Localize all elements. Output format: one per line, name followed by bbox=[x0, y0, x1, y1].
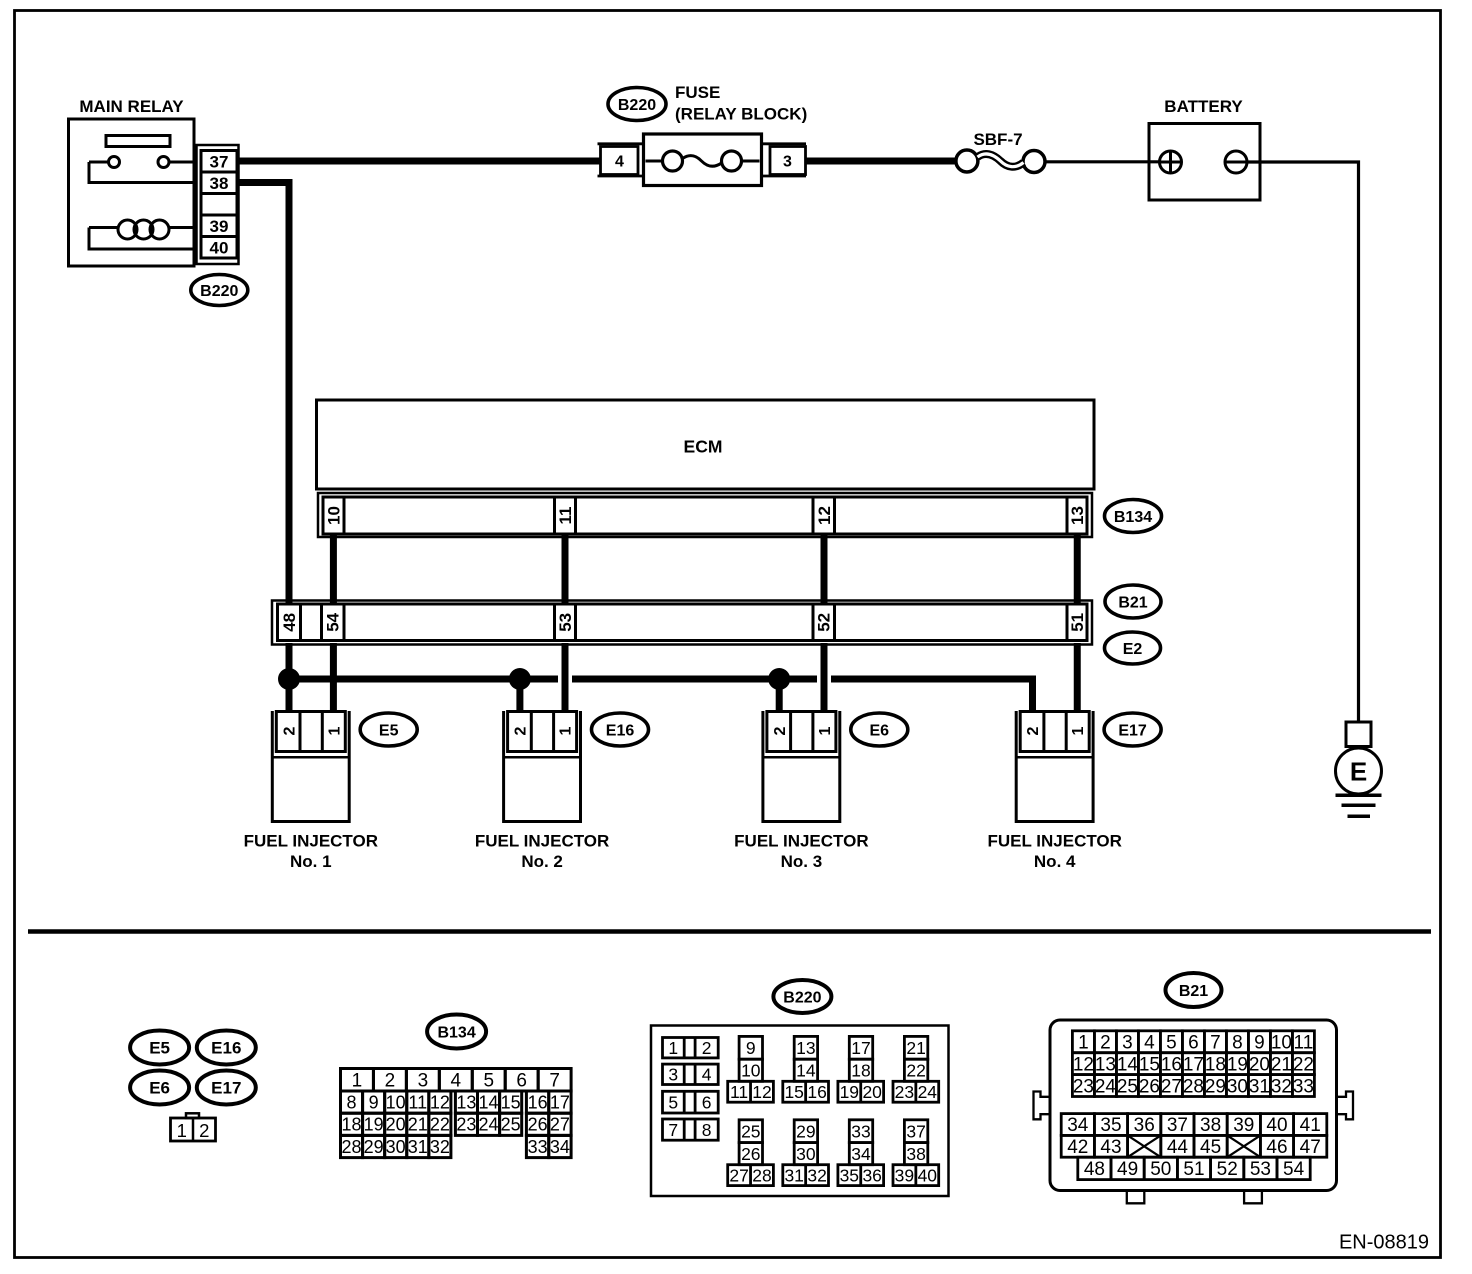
svg-text:46: 46 bbox=[1266, 1137, 1287, 1158]
svg-text:FUEL INJECTOR: FUEL INJECTOR bbox=[475, 832, 609, 851]
svg-text:6: 6 bbox=[516, 1070, 527, 1091]
wire: pin 51 to injector No.4 pin 1 bbox=[1074, 643, 1081, 712]
svg-text:14: 14 bbox=[479, 1092, 499, 1112]
svg-text:4: 4 bbox=[1144, 1032, 1155, 1053]
ground E bbox=[1336, 722, 1382, 816]
svg-text:36: 36 bbox=[1134, 1115, 1155, 1136]
svg-text:12: 12 bbox=[752, 1082, 771, 1102]
svg-text:25: 25 bbox=[1117, 1076, 1138, 1097]
svg-text:8: 8 bbox=[702, 1120, 712, 1140]
svg-text:23: 23 bbox=[895, 1082, 914, 1102]
wire: main relay pin 37 to fuse terminal 4 bbox=[239, 158, 602, 165]
svg-text:15: 15 bbox=[501, 1092, 521, 1112]
wire: pin 48 down to junction and injector No.1 pin 2 bbox=[286, 643, 293, 712]
svg-text:33: 33 bbox=[528, 1137, 548, 1157]
svg-text:39: 39 bbox=[895, 1165, 914, 1185]
svg-text:22: 22 bbox=[906, 1060, 925, 1080]
svg-text:10: 10 bbox=[386, 1092, 406, 1112]
svg-text:24: 24 bbox=[479, 1115, 499, 1135]
svg-text:2: 2 bbox=[199, 1120, 209, 1141]
connector label E17 bbox=[1104, 713, 1161, 746]
wire: pin 53 to injector No.2 pin 1 bbox=[562, 643, 569, 712]
svg-text:4: 4 bbox=[702, 1065, 712, 1085]
svg-text:E17: E17 bbox=[211, 1079, 241, 1098]
svg-text:38: 38 bbox=[1200, 1115, 1221, 1136]
svg-text:27: 27 bbox=[550, 1115, 570, 1135]
svg-text:38: 38 bbox=[210, 174, 229, 193]
wire: ECM pin 10 to pin 54 bbox=[330, 533, 337, 603]
fuel injector No. 4 bbox=[987, 711, 1121, 871]
svg-text:26: 26 bbox=[1139, 1076, 1160, 1097]
connector pinout 1 2 (injector connector) bbox=[171, 1113, 216, 1141]
connector pins 37 38 39 40 (main relay, B220) bbox=[197, 145, 239, 264]
svg-text:16: 16 bbox=[807, 1082, 826, 1102]
svg-text:B134: B134 bbox=[437, 1024, 475, 1041]
svg-text:40: 40 bbox=[210, 238, 229, 257]
bus wire segment: junction A to crossover at pin 53 wire bbox=[289, 676, 558, 683]
svg-text:41: 41 bbox=[1300, 1115, 1321, 1136]
svg-text:25: 25 bbox=[741, 1121, 760, 1141]
svg-text:23: 23 bbox=[456, 1115, 476, 1135]
connector label B134 (pinout) bbox=[427, 1015, 486, 1049]
svg-text:5: 5 bbox=[1166, 1032, 1177, 1053]
wire: SBF-7 to battery positive bbox=[1045, 160, 1160, 163]
svg-text:27: 27 bbox=[1161, 1076, 1182, 1097]
svg-text:1: 1 bbox=[177, 1120, 187, 1141]
fuel injector No. 3 bbox=[734, 711, 868, 871]
svg-text:B21: B21 bbox=[1179, 983, 1208, 1000]
fuse FUSE (RELAY BLOCK) label bbox=[675, 83, 807, 124]
wire: junction C to injector No.3 pin 2 bbox=[776, 679, 783, 712]
svg-text:1: 1 bbox=[558, 726, 575, 735]
svg-text:13: 13 bbox=[456, 1092, 476, 1112]
connector B21 pinout grid pins 1-54 bbox=[1061, 1031, 1327, 1180]
svg-text:20: 20 bbox=[862, 1082, 882, 1102]
svg-text:2: 2 bbox=[1100, 1032, 1111, 1053]
svg-text:E6: E6 bbox=[870, 722, 890, 739]
svg-text:22: 22 bbox=[1293, 1054, 1314, 1075]
wire: battery negative down to ground E bbox=[1247, 162, 1359, 722]
svg-text:29: 29 bbox=[1205, 1076, 1226, 1097]
bus wire segment: crossover to crossover at pin 52 wire bbox=[572, 676, 817, 683]
svg-text:24: 24 bbox=[1095, 1076, 1117, 1097]
svg-text:22: 22 bbox=[430, 1115, 450, 1135]
relay coil bbox=[89, 220, 194, 249]
connector label B220 (main relay) bbox=[191, 275, 248, 306]
svg-text:14: 14 bbox=[1117, 1054, 1139, 1075]
svg-text:FUSE: FUSE bbox=[675, 83, 720, 102]
svg-text:32: 32 bbox=[807, 1165, 826, 1185]
svg-text:54: 54 bbox=[1283, 1159, 1305, 1180]
svg-text:27: 27 bbox=[729, 1165, 748, 1185]
connector B220 pinout grid pins 1-40 bbox=[651, 1026, 949, 1197]
svg-text:1: 1 bbox=[1078, 1032, 1089, 1053]
wire: ECM pin 13 to pin 51 bbox=[1074, 533, 1081, 603]
svg-text:25: 25 bbox=[501, 1115, 521, 1135]
connector label E2 bbox=[1105, 632, 1161, 664]
svg-text:21: 21 bbox=[906, 1038, 925, 1058]
wire: fuse terminal 3 to fusible link SBF-7 bbox=[806, 158, 957, 165]
svg-text:E5: E5 bbox=[149, 1039, 170, 1058]
svg-text:1: 1 bbox=[817, 726, 834, 735]
svg-text:E: E bbox=[1350, 756, 1367, 786]
svg-text:8: 8 bbox=[1232, 1032, 1243, 1053]
wire: pin 52 to injector No.3 pin 1 bbox=[821, 643, 828, 712]
svg-text:6: 6 bbox=[702, 1092, 712, 1112]
svg-text:9: 9 bbox=[369, 1092, 379, 1112]
svg-text:54: 54 bbox=[324, 612, 343, 631]
svg-text:35: 35 bbox=[840, 1165, 859, 1185]
connector label B134 bbox=[1105, 500, 1162, 533]
figure number EN-08819 bbox=[1339, 1232, 1429, 1254]
fuse element with terminals 4 and 3 bbox=[598, 134, 807, 186]
svg-text:B220: B220 bbox=[783, 989, 821, 1006]
svg-text:18: 18 bbox=[1205, 1054, 1226, 1075]
svg-text:2: 2 bbox=[513, 726, 530, 735]
connector label B21 (pinout) bbox=[1166, 973, 1222, 1007]
connector B21 pinout housing bbox=[1034, 1020, 1354, 1203]
svg-text:No. 3: No. 3 bbox=[781, 852, 823, 871]
svg-text:1: 1 bbox=[1070, 726, 1087, 735]
junction node A bbox=[278, 668, 300, 690]
svg-text:34: 34 bbox=[550, 1137, 570, 1157]
svg-text:18: 18 bbox=[342, 1115, 362, 1135]
svg-text:51: 51 bbox=[1183, 1159, 1204, 1180]
svg-text:B220: B220 bbox=[200, 283, 238, 300]
connector label E16 bbox=[592, 713, 649, 746]
wire: main relay pin 38 down to connector pin 48 bbox=[239, 183, 290, 606]
svg-text:20: 20 bbox=[386, 1115, 406, 1135]
svg-text:29: 29 bbox=[796, 1121, 815, 1141]
svg-text:ECM: ECM bbox=[684, 437, 723, 457]
svg-text:FUEL INJECTOR: FUEL INJECTOR bbox=[734, 832, 868, 851]
svg-text:B134: B134 bbox=[1114, 509, 1152, 526]
svg-text:43: 43 bbox=[1100, 1137, 1121, 1158]
svg-text:36: 36 bbox=[862, 1165, 881, 1185]
svg-text:44: 44 bbox=[1167, 1137, 1189, 1158]
fuel injector No. 1 bbox=[244, 711, 378, 871]
svg-text:9: 9 bbox=[1254, 1032, 1265, 1053]
wire: ECM pin 11 to pin 53 bbox=[562, 533, 569, 603]
svg-text:53: 53 bbox=[556, 613, 575, 632]
connector E5 pins 2 1 (fuel injector No. 1) bbox=[276, 712, 345, 752]
svg-text:29: 29 bbox=[364, 1137, 384, 1157]
svg-text:1: 1 bbox=[326, 726, 343, 735]
connector label E5 (pinout) bbox=[130, 1031, 189, 1065]
svg-text:30: 30 bbox=[1227, 1076, 1248, 1097]
svg-text:31: 31 bbox=[408, 1137, 428, 1157]
svg-text:32: 32 bbox=[430, 1137, 450, 1157]
svg-text:19: 19 bbox=[1227, 1054, 1248, 1075]
connector B134 pinout grid pins 1-34 bbox=[341, 1069, 572, 1158]
connector B134 strip pins 10 11 12 13 bbox=[318, 493, 1092, 537]
svg-text:39: 39 bbox=[1233, 1115, 1254, 1136]
svg-text:49: 49 bbox=[1117, 1159, 1138, 1180]
svg-text:2: 2 bbox=[772, 726, 789, 735]
svg-text:EN-08819: EN-08819 bbox=[1339, 1232, 1429, 1254]
svg-text:2: 2 bbox=[1025, 726, 1042, 735]
connector label E16 (pinout) bbox=[197, 1031, 256, 1065]
svg-text:BATTERY: BATTERY bbox=[1164, 97, 1243, 116]
svg-text:7: 7 bbox=[1210, 1032, 1221, 1053]
svg-text:23: 23 bbox=[1073, 1076, 1094, 1097]
connector label E5 bbox=[360, 713, 417, 746]
relay MAIN RELAY bbox=[69, 97, 195, 266]
svg-text:14: 14 bbox=[796, 1060, 816, 1080]
connector E16 pins 2 1 (fuel injector No. 2) bbox=[508, 712, 577, 752]
ECM bbox=[317, 400, 1095, 489]
svg-text:20: 20 bbox=[1249, 1054, 1270, 1075]
svg-text:15: 15 bbox=[1139, 1054, 1160, 1075]
svg-text:1: 1 bbox=[352, 1070, 363, 1091]
svg-text:52: 52 bbox=[1217, 1159, 1238, 1180]
svg-text:28: 28 bbox=[752, 1165, 771, 1185]
connector E6 pins 2 1 (fuel injector No. 3) bbox=[767, 712, 836, 752]
svg-text:51: 51 bbox=[1068, 613, 1087, 632]
svg-text:12: 12 bbox=[430, 1092, 450, 1112]
svg-text:11: 11 bbox=[556, 507, 575, 525]
svg-text:MAIN RELAY: MAIN RELAY bbox=[79, 97, 184, 116]
connector label B21 bbox=[1105, 585, 1161, 618]
svg-text:30: 30 bbox=[386, 1137, 406, 1157]
wire: ECM pin 12 to pin 52 bbox=[821, 533, 828, 603]
svg-text:39: 39 bbox=[210, 217, 229, 236]
svg-text:15: 15 bbox=[784, 1082, 803, 1102]
svg-text:21: 21 bbox=[408, 1115, 428, 1135]
svg-text:26: 26 bbox=[741, 1144, 760, 1164]
svg-text:5: 5 bbox=[483, 1070, 494, 1091]
svg-text:31: 31 bbox=[784, 1165, 803, 1185]
connector E17 pins 2 1 (fuel injector No. 4) bbox=[1020, 712, 1089, 752]
svg-text:26: 26 bbox=[528, 1115, 548, 1135]
svg-text:11: 11 bbox=[408, 1092, 427, 1112]
svg-text:37: 37 bbox=[906, 1121, 925, 1141]
svg-text:16: 16 bbox=[1161, 1054, 1182, 1075]
svg-text:3: 3 bbox=[1122, 1032, 1133, 1053]
svg-text:6: 6 bbox=[1188, 1032, 1199, 1053]
svg-text:11: 11 bbox=[730, 1082, 748, 1102]
svg-text:17: 17 bbox=[851, 1038, 870, 1058]
svg-text:10: 10 bbox=[1271, 1032, 1292, 1053]
svg-text:21: 21 bbox=[1271, 1054, 1292, 1075]
svg-text:10: 10 bbox=[325, 506, 344, 525]
wire: pin 54 to injector No.1 pin 1 bbox=[330, 643, 337, 712]
svg-text:52: 52 bbox=[815, 613, 834, 632]
svg-text:4: 4 bbox=[451, 1070, 462, 1091]
svg-text:E16: E16 bbox=[606, 722, 635, 739]
fuel injector No. 2 bbox=[475, 711, 609, 871]
svg-text:34: 34 bbox=[851, 1144, 871, 1164]
svg-text:7: 7 bbox=[668, 1120, 678, 1140]
svg-text:32: 32 bbox=[1271, 1076, 1292, 1097]
svg-text:8: 8 bbox=[347, 1092, 357, 1112]
connector label E17 (pinout) bbox=[197, 1071, 256, 1105]
svg-text:28: 28 bbox=[342, 1137, 362, 1157]
svg-text:31: 31 bbox=[1249, 1076, 1270, 1097]
svg-text:18: 18 bbox=[851, 1060, 870, 1080]
svg-text:No. 2: No. 2 bbox=[521, 852, 563, 871]
svg-text:E6: E6 bbox=[149, 1079, 170, 1098]
svg-text:1: 1 bbox=[668, 1038, 678, 1058]
svg-text:(RELAY BLOCK): (RELAY BLOCK) bbox=[675, 105, 807, 124]
svg-text:24: 24 bbox=[918, 1082, 938, 1102]
svg-text:13: 13 bbox=[1095, 1054, 1116, 1075]
svg-text:E16: E16 bbox=[211, 1039, 241, 1058]
svg-text:10: 10 bbox=[741, 1060, 761, 1080]
svg-text:4: 4 bbox=[615, 153, 624, 170]
svg-text:47: 47 bbox=[1300, 1137, 1321, 1158]
svg-text:48: 48 bbox=[1084, 1159, 1105, 1180]
junction node B bbox=[509, 668, 531, 690]
wire: junction B to injector No.2 pin 2 bbox=[516, 679, 523, 712]
junction node C bbox=[768, 668, 790, 690]
svg-text:9: 9 bbox=[746, 1038, 756, 1058]
svg-text:17: 17 bbox=[1183, 1054, 1204, 1075]
svg-text:2: 2 bbox=[385, 1070, 396, 1091]
svg-text:17: 17 bbox=[550, 1092, 570, 1112]
svg-text:SBF-7: SBF-7 bbox=[973, 130, 1022, 149]
svg-text:12: 12 bbox=[815, 506, 834, 525]
bus wire segment: crossover to injector No.4 pin 2 bbox=[831, 679, 1033, 712]
svg-text:50: 50 bbox=[1150, 1159, 1171, 1180]
svg-text:45: 45 bbox=[1200, 1137, 1221, 1158]
connector label E6 (pinout) bbox=[130, 1071, 189, 1105]
svg-text:37: 37 bbox=[1167, 1115, 1188, 1136]
svg-text:33: 33 bbox=[1293, 1076, 1314, 1097]
svg-text:3: 3 bbox=[668, 1065, 678, 1085]
svg-text:No. 1: No. 1 bbox=[290, 852, 332, 871]
svg-text:E17: E17 bbox=[1118, 722, 1147, 739]
svg-text:19: 19 bbox=[364, 1115, 384, 1135]
svg-text:B220: B220 bbox=[618, 97, 656, 114]
svg-text:30: 30 bbox=[796, 1144, 816, 1164]
svg-text:2: 2 bbox=[702, 1038, 712, 1058]
svg-text:3: 3 bbox=[418, 1070, 429, 1091]
svg-text:FUEL INJECTOR: FUEL INJECTOR bbox=[244, 832, 378, 851]
connector B21/E2 strip pins 48 54 53 52 51 bbox=[272, 601, 1092, 645]
connector label E6 bbox=[851, 713, 908, 746]
svg-text:16: 16 bbox=[528, 1092, 548, 1112]
svg-text:5: 5 bbox=[668, 1092, 678, 1112]
svg-text:42: 42 bbox=[1067, 1137, 1088, 1158]
svg-text:E5: E5 bbox=[379, 722, 399, 739]
svg-text:38: 38 bbox=[906, 1144, 925, 1164]
svg-text:FUEL INJECTOR: FUEL INJECTOR bbox=[987, 832, 1121, 851]
svg-text:11: 11 bbox=[1294, 1032, 1314, 1053]
svg-text:19: 19 bbox=[840, 1082, 859, 1102]
svg-text:40: 40 bbox=[1266, 1115, 1287, 1136]
svg-text:33: 33 bbox=[851, 1121, 870, 1141]
svg-text:B21: B21 bbox=[1118, 594, 1147, 611]
svg-text:53: 53 bbox=[1250, 1159, 1271, 1180]
svg-text:E2: E2 bbox=[1123, 641, 1143, 658]
svg-text:28: 28 bbox=[1183, 1076, 1204, 1097]
svg-text:7: 7 bbox=[549, 1070, 560, 1091]
svg-text:40: 40 bbox=[918, 1165, 938, 1185]
relay contact switch bbox=[89, 157, 194, 183]
svg-text:48: 48 bbox=[280, 613, 299, 632]
connector label B220 (relay block) bbox=[608, 88, 666, 121]
svg-text:2: 2 bbox=[281, 726, 298, 735]
svg-text:35: 35 bbox=[1100, 1115, 1121, 1136]
svg-text:3: 3 bbox=[783, 153, 792, 170]
svg-text:13: 13 bbox=[796, 1038, 815, 1058]
battery BATTERY bbox=[1149, 97, 1260, 200]
svg-text:13: 13 bbox=[1068, 506, 1087, 525]
svg-text:34: 34 bbox=[1067, 1115, 1089, 1136]
svg-text:37: 37 bbox=[210, 152, 229, 171]
svg-text:12: 12 bbox=[1073, 1054, 1094, 1075]
connector label B220 (pinout) bbox=[773, 980, 831, 1013]
fusible link SBF-7 bbox=[956, 130, 1045, 173]
svg-text:No. 4: No. 4 bbox=[1034, 852, 1076, 871]
